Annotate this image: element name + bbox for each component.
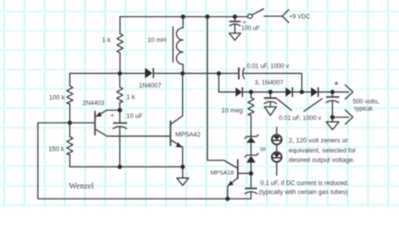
svg-text:500 volts,: 500 volts, xyxy=(353,98,380,105)
svg-text:10 uF: 10 uF xyxy=(126,113,142,120)
svg-text:2, 120 volt zeners or: 2, 120 volt zeners or xyxy=(289,138,349,145)
svg-text:*: * xyxy=(334,79,338,91)
svg-text:100 k: 100 k xyxy=(49,94,65,101)
svg-text:10 meg: 10 meg xyxy=(221,108,243,115)
svg-text:or: or xyxy=(260,146,267,153)
svg-text:10 mH: 10 mH xyxy=(148,37,167,44)
svg-text:1N4007: 1N4007 xyxy=(139,83,162,90)
svg-text:+9 VDC: +9 VDC xyxy=(289,14,311,20)
svg-text:150 k: 150 k xyxy=(49,146,65,153)
svg-text:MPSA42: MPSA42 xyxy=(175,131,201,138)
svg-text:1 k: 1 k xyxy=(102,37,111,44)
svg-text:MPSA18: MPSA18 xyxy=(211,171,235,177)
svg-text:0.01 uF, 1000 v: 0.01 uF, 1000 v xyxy=(279,115,322,122)
svg-text:1 k: 1 k xyxy=(126,94,135,101)
svg-text:3, 1N4007: 3, 1N4007 xyxy=(255,79,284,86)
svg-text:+: + xyxy=(243,20,247,27)
svg-text:0.01 uF, 1000 v: 0.01 uF, 1000 v xyxy=(247,63,290,70)
svg-text:desired output voltage.: desired output voltage. xyxy=(289,157,355,164)
svg-text:(typically with certain gas tu: (typically with certain gas tubes) xyxy=(259,189,348,196)
svg-text:Wenzel: Wenzel xyxy=(69,181,95,190)
svg-text:typical.: typical. xyxy=(355,106,375,113)
svg-text:equivalent, selected for: equivalent, selected for xyxy=(289,147,357,154)
svg-text:2N4403: 2N4403 xyxy=(83,100,105,107)
svg-text:100 uF: 100 uF xyxy=(241,26,260,32)
svg-text:0.1 uF, if DC current is reduc: 0.1 uF, if DC current is reduced. xyxy=(260,180,349,187)
svg-text:+: + xyxy=(110,113,114,120)
